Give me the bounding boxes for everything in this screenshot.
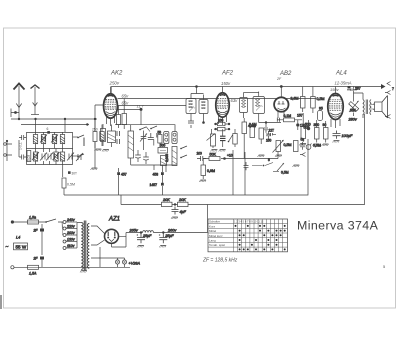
wire transformer taps	[91, 226, 113, 258]
tube AF2	[216, 87, 229, 126]
wire antenna bus lower	[21, 124, 89, 126]
svg-text:4µF: 4µF	[180, 210, 187, 214]
varcap row2 C1	[32, 152, 39, 162]
cap pair small	[117, 131, 120, 144]
resistor 50K horizontal	[209, 153, 220, 161]
resistor 250	[92, 119, 98, 148]
node dot 4uF	[174, 203, 176, 205]
svg-text:0,5M: 0,5M	[317, 97, 325, 101]
varcap band2	[76, 153, 83, 161]
ground 90	[322, 144, 329, 146]
svg-text:Mittel kurz: Mittel kurz	[209, 234, 223, 238]
wire osc top rail	[115, 125, 175, 132]
svg-text:200v: 200v	[66, 231, 75, 235]
wire AB2 grid line	[259, 123, 281, 128]
svg-text:1 2 3 4 5 6 7 8 9 10 11 12: 1 2 3 4 5 6 7 8 9 10 11 12	[234, 220, 264, 224]
switch osc right	[180, 146, 187, 158]
wire RF block rails	[26, 132, 72, 164]
svg-text:AF2: AF2	[221, 71, 234, 77]
svg-text:100µF: 100µF	[342, 134, 354, 138]
svg-text:0,5M: 0,5M	[67, 183, 75, 187]
band switch contacts	[73, 135, 84, 157]
node dot AB2 top	[280, 85, 283, 88]
wire 56K verticals	[353, 87, 355, 117]
resistor 0,1M horizontal	[277, 114, 302, 122]
svg-text:0,5M: 0,5M	[281, 171, 289, 175]
resistor 2,6M	[291, 87, 306, 113]
cap to gnd osc 1	[135, 150, 141, 162]
pot 56K	[349, 101, 359, 113]
resistor 50 osc	[158, 131, 163, 148]
ground transformer	[80, 271, 87, 273]
coil osc left tall	[128, 125, 134, 165]
node dots antenna bus	[34, 118, 36, 120]
plug arrows top right	[381, 82, 391, 119]
output transformer	[354, 93, 372, 118]
svg-text:2,6M: 2,6M	[291, 97, 299, 101]
junction dot below T2	[202, 121, 205, 124]
capacitor 100 detector	[197, 152, 207, 162]
svg-text:157: 157	[297, 114, 303, 118]
capacitor 0,03 input	[19, 135, 31, 162]
varcap tone arrow	[273, 163, 289, 175]
varcap row2 C3	[46, 153, 53, 161]
IF can T2a	[186, 94, 196, 120]
table inner horizontals	[208, 224, 288, 248]
svg-text:280v: 280v	[348, 118, 358, 122]
svg-text:0,003: 0,003	[165, 154, 169, 162]
ground below 250	[95, 149, 102, 151]
svg-text:220v: 220v	[66, 225, 75, 229]
svg-text:1,5a: 1,5a	[29, 216, 36, 220]
svg-text:12T: 12T	[269, 129, 275, 133]
svg-text:265v: 265v	[129, 229, 139, 233]
svg-text:56K: 56K	[350, 109, 357, 113]
switch osc contacts	[139, 126, 157, 132]
svg-text:500: 500	[305, 123, 311, 127]
svg-text:0,9M: 0,9M	[207, 169, 215, 173]
potentiometer 0,5M volume	[273, 140, 292, 153]
resistor 0,9M	[201, 159, 215, 180]
capacitor 2F upper	[33, 224, 45, 255]
wattage box 55W	[6, 243, 28, 251]
IF marker 457 left	[117, 168, 127, 195]
svg-text:50K: 50K	[210, 153, 217, 157]
IF can T3b	[253, 92, 265, 123]
cap 150	[266, 131, 272, 143]
ground 350	[313, 144, 320, 146]
antenna A2	[31, 85, 40, 115]
jack arrow detector	[300, 153, 306, 157]
svg-text:457: 457	[121, 173, 127, 177]
svg-text:0,5M: 0,5M	[284, 143, 292, 147]
wire RF block output drop	[62, 165, 64, 178]
ground under 0,2M	[258, 155, 265, 157]
resistor 0,1M vertical left	[249, 123, 257, 138]
cap coupling AB2	[277, 118, 279, 122]
ground AL4 grid	[299, 144, 306, 146]
capacitor block left	[101, 124, 106, 146]
svg-text:5: 5	[268, 158, 270, 162]
svg-text:Mittel: Mittel	[209, 229, 217, 233]
wire anode drop to osc rail	[140, 109, 142, 124]
wire AZ1 drop to lamps	[99, 247, 101, 267]
IF can T2b	[199, 95, 208, 123]
wire AK2 anode short	[118, 108, 142, 110]
resistor AK2 screen	[122, 99, 127, 130]
tube AL4	[328, 87, 343, 129]
coil 0,003	[161, 154, 170, 166]
coil can osc B	[172, 132, 177, 144]
svg-text:0,1M: 0,1M	[249, 123, 257, 127]
coil L2 with trimmer	[40, 135, 47, 145]
svg-text:Lang: Lang	[209, 239, 216, 243]
IF can T3a	[240, 93, 248, 119]
resistor 100 under AF2	[214, 119, 230, 126]
ground AK2 cluster	[102, 150, 109, 152]
coil right column lower	[172, 147, 177, 166]
IF marker 1457	[150, 183, 164, 195]
ground 0,9M	[199, 180, 206, 182]
resistor right of pot	[294, 141, 299, 152]
svg-text:50: 50	[158, 131, 162, 135]
svg-text:+10: +10	[227, 154, 233, 158]
svg-text:0,03: 0,03	[27, 155, 31, 161]
svg-text:130v: 130v	[67, 238, 75, 242]
node dot	[265, 121, 267, 123]
svg-text:30T: 30T	[72, 172, 78, 176]
svg-text:25µF: 25µF	[164, 234, 174, 238]
label 500	[305, 120, 311, 130]
resistor 20K b	[178, 198, 189, 206]
resistor AK2 cathode	[117, 106, 121, 129]
wire switch drop	[83, 138, 85, 147]
svg-text:7: 7	[392, 87, 394, 91]
svg-text:AL4: AL4	[335, 71, 347, 77]
svg-text:Schalter: Schalter	[209, 220, 220, 224]
dot component 170	[296, 120, 305, 130]
padder C fixed	[47, 127, 50, 134]
svg-text:~: ~	[6, 245, 9, 251]
svg-text:63v: 63v	[231, 98, 239, 103]
node dot detector	[223, 157, 226, 160]
svg-text:6: 6	[47, 127, 49, 131]
capacitor osc mid	[148, 133, 157, 146]
svg-text:12-35mA: 12-35mA	[335, 81, 352, 86]
svg-text:150v: 150v	[221, 81, 231, 86]
ground under pot	[275, 155, 282, 157]
node dot on anode wire	[140, 108, 143, 111]
wire AVC bus	[64, 139, 308, 195]
wire antenna bus	[11, 118, 97, 120]
ground right resistor	[293, 165, 300, 167]
fuse 1,5A lower	[28, 265, 39, 275]
table frame	[208, 219, 288, 252]
input lead lower with cap	[4, 140, 27, 161]
wire vertical x233	[232, 150, 234, 195]
switch AF2	[228, 135, 233, 142]
resistor AF2 right	[233, 129, 237, 147]
svg-text:110v: 110v	[67, 244, 75, 248]
resistor AL4 grid	[301, 113, 306, 142]
svg-text:11,7: 11,7	[137, 105, 145, 109]
resistor AL4 90	[323, 121, 329, 143]
wire detector row	[203, 138, 278, 159]
table inner verticals	[234, 219, 283, 252]
node antenna junction dot	[11, 109, 19, 118]
svg-text:1-0,1: 1-0,1	[19, 142, 23, 150]
wire AK2 grid left	[95, 105, 104, 168]
varcap row2 C4	[67, 153, 74, 161]
switch mains	[45, 219, 56, 223]
resistor row2 under AF2	[214, 127, 230, 130]
svg-text:L4: L4	[16, 236, 20, 240]
switch tone	[252, 158, 273, 166]
svg-text:AZ1: AZ1	[108, 217, 120, 223]
resistor right of 250	[100, 125, 104, 147]
IF marker 458	[153, 165, 164, 183]
marker 30T	[68, 171, 77, 175]
table dots	[235, 225, 286, 251]
svg-text:458: 458	[153, 173, 159, 177]
tube AK2	[104, 87, 118, 127]
svg-text:100: 100	[218, 119, 224, 123]
wire B+ 265v	[126, 233, 143, 248]
coil L4a	[60, 135, 64, 145]
wire B+ top bus 250v	[111, 86, 381, 88]
svg-text:500: 500	[160, 144, 166, 148]
cap below T2a	[188, 119, 194, 128]
resistor 500 osc	[158, 144, 168, 154]
node dots on B+	[140, 231, 142, 233]
wire ground bus	[121, 114, 365, 205]
wire screen bus 65v	[118, 98, 317, 100]
wire RF block risers	[36, 119, 66, 165]
svg-text:ZF = 128,5 kHz: ZF = 128,5 kHz	[202, 258, 238, 264]
wire mains bottom	[14, 266, 130, 268]
node dot T2	[195, 85, 198, 88]
resistor AL4 cathode 350	[314, 120, 320, 143]
svg-text:260v: 260v	[167, 229, 177, 233]
cap tone	[244, 162, 249, 170]
jack circle	[306, 144, 311, 150]
tube AZ1	[105, 229, 127, 247]
varcap row2 C2	[40, 153, 47, 161]
coil L3 with trimmer	[51, 135, 58, 145]
cap to gnd osc 2	[143, 152, 149, 164]
coil row2 b	[60, 152, 64, 162]
svg-text:Minerva 374A: Minerva 374A	[297, 219, 379, 233]
coil block	[108, 125, 116, 148]
cap small mid	[264, 128, 268, 133]
ground AF2	[211, 150, 218, 152]
wire T2 tops	[191, 87, 204, 94]
speaker	[371, 96, 388, 119]
svg-text:20K: 20K	[162, 198, 170, 202]
svg-text:Tonab. spiel: Tonab. spiel	[209, 243, 225, 247]
svg-text:55 W: 55 W	[16, 245, 27, 250]
svg-text:2F: 2F	[276, 77, 282, 81]
wire mains top	[14, 221, 62, 223]
cap 287 top	[347, 86, 361, 91]
svg-text:20K: 20K	[178, 198, 186, 202]
capacitor 2F lower	[33, 257, 45, 268]
wire osc bottoms	[131, 165, 177, 172]
transformer TR1	[77, 221, 89, 271]
resistor AF2 grid leak with arrow	[207, 129, 216, 148]
terminal mains top	[11, 220, 14, 223]
svg-text:150v: 150v	[330, 87, 340, 92]
electrolytic 4uF	[171, 207, 187, 220]
dial lamps	[113, 258, 127, 267]
electrolytic 25uF a	[137, 233, 153, 248]
svg-text:250v: 250v	[109, 81, 120, 86]
resistor 15K	[0, 0, 1, 1]
capacitor stack AF2	[220, 129, 226, 147]
cap 5n	[300, 138, 305, 150]
svg-text:25µF: 25µF	[142, 234, 152, 238]
scan edge mark bottom-left	[0, 295, 2, 309]
svg-text:0,1M: 0,1M	[284, 114, 292, 118]
resistor 0,5M right	[311, 87, 325, 114]
cap 12T	[267, 129, 276, 136]
svg-text:150: 150	[266, 139, 272, 143]
coil L1	[33, 135, 37, 145]
ground RF switch	[91, 168, 98, 170]
svg-text:1457: 1457	[150, 183, 158, 187]
wire vertical x245	[244, 152, 246, 195]
choke L5	[143, 231, 154, 233]
antenna A1	[14, 84, 25, 120]
electrolytic 25uF b	[159, 233, 175, 248]
electrolytic 100uF	[333, 131, 354, 143]
resistor 50K vertical	[259, 128, 264, 144]
wire B+ 260v	[153, 205, 207, 233]
pot 95 mid	[318, 107, 323, 121]
resistor 0,5M AVC	[62, 178, 75, 195]
resistor 20K a	[162, 198, 173, 206]
svg-text:240v: 240v	[66, 218, 75, 222]
coil row2 with trimmer	[53, 152, 60, 162]
svg-text:100: 100	[197, 152, 203, 156]
svg-text:+V28A: +V28A	[129, 262, 141, 266]
terminal mains bottom	[11, 266, 14, 269]
svg-text:Kurz: Kurz	[209, 224, 216, 228]
svg-text:1,5A: 1,5A	[29, 272, 37, 276]
wire AK2 third wire	[118, 105, 187, 107]
wire T3 top	[244, 92, 259, 94]
fuse 1,5a	[28, 216, 39, 225]
svg-text:AK2: AK2	[110, 71, 123, 77]
ground cap stack	[219, 150, 226, 152]
tube AB2	[274, 87, 288, 119]
svg-text:287: 287	[355, 87, 361, 91]
coil can osc A	[164, 132, 169, 144]
svg-text:95: 95	[319, 107, 323, 111]
svg-text:65v: 65v	[122, 101, 130, 106]
svg-text:65v: 65v	[122, 94, 130, 99]
varcap osc	[140, 131, 147, 151]
voltage selector	[62, 221, 77, 250]
resistor 4,0M	[242, 118, 256, 138]
wire B+ left drop	[110, 87, 112, 95]
